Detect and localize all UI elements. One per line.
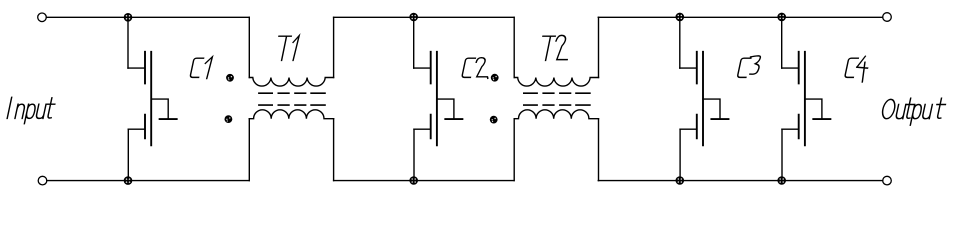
input terminal (bottom) bbox=[38, 176, 47, 185]
T1 primary polarity dot bbox=[226, 74, 234, 82]
node: junction C2 top bbox=[409, 13, 418, 22]
node: junction C1 top bbox=[124, 13, 133, 22]
node: junction C1 bottom bbox=[124, 176, 133, 185]
label Input bbox=[6, 97, 56, 123]
wire: bottom rail segment 1 bbox=[47, 180, 250, 182]
label T1 bbox=[274, 36, 299, 61]
input terminal (top) bbox=[38, 13, 47, 22]
node: junction C4 top bbox=[777, 13, 786, 22]
label T2 bbox=[538, 35, 573, 60]
T2 secondary polarity dot bbox=[490, 116, 498, 124]
label C1 bbox=[190, 57, 213, 79]
wire: bottom rail segment 2 bbox=[334, 180, 514, 182]
transformer T1 bbox=[249, 17, 333, 180]
label Output bbox=[880, 98, 947, 125]
output terminal (bottom) bbox=[883, 176, 892, 185]
label C4 bbox=[844, 56, 870, 82]
node: junction C4 bottom bbox=[777, 176, 786, 185]
capacitor C3 bbox=[680, 17, 729, 180]
wire: bottom rail segment 3 bbox=[598, 180, 882, 182]
capacitor C2 bbox=[414, 17, 463, 180]
wire: top rail segment 1 bbox=[46, 16, 249, 18]
capacitor C1 bbox=[128, 17, 177, 180]
label C2 bbox=[462, 58, 493, 79]
output terminal (top) bbox=[883, 13, 892, 22]
T2 primary polarity dot bbox=[491, 74, 499, 82]
transformer T2 bbox=[514, 17, 598, 180]
label C3 bbox=[737, 56, 761, 78]
capacitor C4 bbox=[782, 17, 831, 180]
T1 secondary polarity dot bbox=[225, 115, 233, 123]
wire: top rail segment 3 bbox=[598, 16, 882, 18]
node: junction C3 top bbox=[676, 13, 685, 22]
node: junction C3 bottom bbox=[676, 176, 685, 185]
node: junction C2 bottom bbox=[409, 176, 418, 185]
wire: top rail segment 2 bbox=[334, 16, 514, 18]
